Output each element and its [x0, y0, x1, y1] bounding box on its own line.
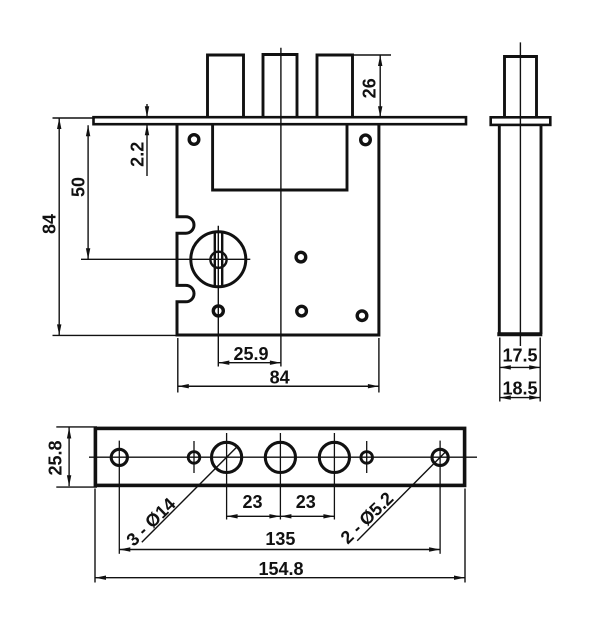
dim 154.8 arrows [95, 576, 106, 580]
dim 25.8 line [68, 428, 70, 487]
svg-text:2.2: 2.2 [127, 142, 147, 167]
svg-text:25.8: 25.8 [45, 440, 65, 475]
bottom view horizontal centerline [89, 456, 477, 458]
dim 84 bottom left ext [177, 338, 179, 393]
screw hole bottom-mid [297, 306, 307, 316]
dim 25.8 top ext [56, 426, 97, 428]
dim 84 vertical top ext [53, 117, 96, 119]
dim 2.2 upper line [146, 104, 148, 117]
dim 23 right line [280, 515, 334, 517]
leader line 3-dia14 [142, 446, 238, 543]
side view centerline [519, 42, 521, 346]
screw hole mid-right [296, 252, 306, 262]
hole 1 (corner 5.2) [111, 449, 127, 465]
dim 84 vertical line [58, 118, 60, 335]
svg-text:18.5: 18.5 [502, 379, 537, 399]
dim 154.8 left ext [94, 489, 96, 583]
bolt 3 front view [317, 55, 353, 118]
side view body right edge [540, 125, 543, 334]
dim 25.8 bottom ext [56, 486, 97, 488]
keyway right line [221, 232, 223, 286]
dim 135 line [119, 549, 440, 551]
cylinder horizontal centerline [81, 258, 250, 260]
svg-text:23: 23 [296, 492, 316, 512]
dim 17.5 right ext [539, 338, 541, 402]
dim 25.9 arrows [218, 361, 229, 365]
dim 84 bottom line [178, 385, 379, 387]
bolt 2 front view [263, 55, 297, 119]
keyway center circle [210, 252, 226, 268]
dim 84 vertical bottom ext [53, 334, 179, 336]
dim 154.8 line [95, 577, 465, 579]
dim 23 left line [227, 515, 281, 517]
dim 26 line [379, 55, 381, 117]
hole 7 centerline [439, 441, 441, 554]
hole 2 centerline [193, 441, 195, 473]
bolt 1 front view [208, 55, 244, 118]
hole 2 small [188, 452, 200, 464]
side view body left edge [498, 125, 501, 334]
dim 26 top ext [353, 54, 392, 56]
hole 5 (dia 14) [319, 442, 349, 472]
dim 23 arrows [227, 514, 238, 518]
dim 25.9 line [218, 362, 281, 364]
svg-text:84: 84 [270, 367, 290, 387]
svg-text:135: 135 [265, 529, 295, 549]
svg-text:26: 26 [359, 78, 379, 98]
cylinder vertical centerline [217, 226, 219, 367]
hole 1 centerline [118, 441, 120, 554]
screw hole top-right [361, 135, 371, 145]
hole below cylinder [213, 306, 223, 316]
hole 4 centerline [279, 433, 281, 520]
dim 17.5 line [500, 366, 540, 368]
dim 2.2 lower line [146, 124, 148, 176]
hole 3 centerline [226, 433, 228, 520]
bottom view plate [95, 428, 464, 485]
lock body outline with two left-edge notches [177, 124, 379, 335]
svg-text:154.8: 154.8 [258, 559, 303, 579]
side view faceplate [491, 117, 551, 125]
dim 17.5 arrows [500, 365, 511, 369]
follower box [213, 124, 347, 190]
svg-text:84: 84 [39, 214, 59, 234]
leader line 2-dia5.2 [357, 451, 446, 540]
dim 26 arrows [378, 55, 382, 66]
svg-text:25.9: 25.9 [233, 344, 268, 364]
dim 154.8 right ext [464, 489, 466, 583]
front center axis line [280, 48, 282, 367]
dim 50 line [87, 125, 89, 259]
dim 84 bottom right ext [378, 338, 380, 393]
dim 18.5 line [500, 397, 540, 399]
svg-text:17.5: 17.5 [502, 346, 537, 366]
svg-text:50: 50 [68, 177, 88, 197]
dim 25.8 arrows [67, 428, 71, 439]
dim 18.5 arrows [500, 395, 511, 399]
svg-text:23: 23 [242, 492, 262, 512]
side view body bottom edge [497, 332, 542, 336]
screw hole bottom-right [357, 311, 367, 321]
dim 135 arrows [119, 547, 130, 551]
cylinder circle [191, 232, 246, 287]
hole 4 (dia 14) [265, 442, 295, 472]
dim 17.5 left ext [499, 338, 501, 402]
hole 5 centerline [333, 433, 335, 520]
keyway left line [214, 232, 216, 286]
dim 50 arrows [86, 125, 90, 136]
hole 3 (dia 14) [212, 442, 242, 472]
side view bolt [505, 57, 537, 118]
dim 84 bottom arrows [178, 384, 189, 388]
hole 6 centerline [366, 441, 368, 473]
screw hole top-left [189, 135, 199, 145]
hole 6 small [361, 452, 373, 464]
hole 7 (corner 5.2) [432, 449, 448, 465]
dim 84 vertical arrows [57, 118, 61, 129]
front view faceplate bar [94, 117, 467, 124]
dim 2.2 arrows [145, 106, 149, 117]
